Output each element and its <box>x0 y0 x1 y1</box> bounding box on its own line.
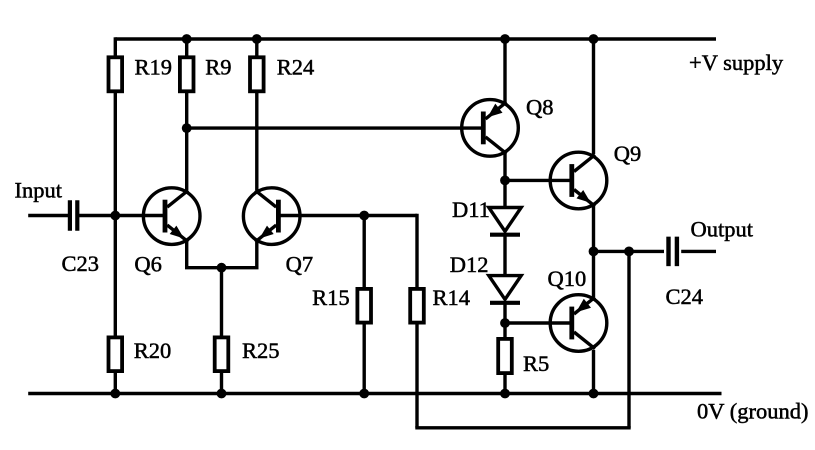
diode D12 <box>489 276 521 300</box>
svg-text:R5: R5 <box>523 351 549 376</box>
wire node to Q10 base <box>505 321 572 324</box>
wire Q8 collector to node <box>503 152 506 180</box>
node D12 / R5 / Q10 base <box>500 318 510 328</box>
wire R24 to Q7 collector <box>255 92 258 190</box>
wire top rail to R9 <box>185 39 188 57</box>
wire feedback bottom <box>415 426 630 429</box>
node R9 / Q8 base junction <box>182 123 192 133</box>
wire R14 to feedback bottom <box>415 324 418 428</box>
svg-text:R19: R19 <box>135 54 173 79</box>
svg-text:C24: C24 <box>666 284 704 309</box>
wire C24 to output lead <box>681 250 716 253</box>
wire Q7 base to R15/R14 <box>279 214 418 217</box>
node feedback tap <box>624 247 634 257</box>
resistor R9 <box>180 57 194 91</box>
wire top rail to Q8 emitter <box>503 39 506 103</box>
transistor Q9 <box>550 152 607 209</box>
svg-text:Input: Input <box>15 178 63 203</box>
wire top rail to R19 <box>114 37 117 57</box>
wire feedback up to output <box>627 251 630 427</box>
wire input lead <box>28 214 68 217</box>
resistor R5 <box>498 339 512 373</box>
node ground / R20 <box>110 389 120 399</box>
node Q9/Q10 output junction <box>589 247 599 257</box>
transistor Q10 <box>550 295 607 352</box>
resistor R15 <box>357 289 371 323</box>
wire +V supply top rail <box>115 37 716 40</box>
transistor Q6 <box>143 188 200 245</box>
wire Q9 emitter to output node <box>592 206 595 251</box>
wire R15 to ground <box>363 324 366 394</box>
wire D11 to D12 <box>503 235 506 277</box>
svg-text:R9: R9 <box>205 54 231 79</box>
wire R9 to Q8-base node to Q6 collector <box>185 92 188 190</box>
node emitter tail junction <box>217 263 227 273</box>
wire Q7 emitter to tail <box>255 242 258 268</box>
node ground / R25 <box>217 389 227 399</box>
wire C23 to input node to Q6 base <box>79 214 164 217</box>
node top rail / R9 <box>182 34 192 44</box>
wire top rail to Q9 collector <box>592 39 595 154</box>
svg-text:Q8: Q8 <box>526 94 554 119</box>
svg-text:D12: D12 <box>450 252 489 277</box>
wire Q6 emitter to tail <box>185 242 188 268</box>
svg-text:R15: R15 <box>312 285 350 310</box>
wire feedback tap to C24 <box>629 250 664 253</box>
wire Q6 collector node to Q8 base <box>187 126 484 129</box>
wire output node to Q10 emitter <box>592 251 595 297</box>
node R15 top junction <box>359 211 369 221</box>
wire Q10 collector to ground <box>592 350 595 394</box>
svg-text:D11: D11 <box>452 197 490 222</box>
wire D12 to Q10 base node <box>503 304 506 324</box>
wire R19 to input node to R20 <box>114 92 117 337</box>
svg-text:0V (ground): 0V (ground) <box>697 399 808 424</box>
resistor R20 <box>109 337 123 371</box>
resistor R25 <box>215 337 229 371</box>
svg-text:Q9: Q9 <box>614 141 642 166</box>
wire R25 to ground <box>220 372 223 394</box>
wire top rail to R24 <box>255 39 258 57</box>
transistor Q8 <box>462 100 519 157</box>
wire 0V ground bottom rail <box>28 392 721 395</box>
node top rail / Q8 <box>500 34 510 44</box>
svg-text:Q6: Q6 <box>134 251 162 276</box>
resistor R14 <box>410 289 424 323</box>
node ground / R15 <box>359 389 369 399</box>
wire R15 top lead <box>363 216 366 290</box>
wire R5 to ground <box>503 374 506 394</box>
wire down to R14 <box>415 214 418 289</box>
svg-text:R20: R20 <box>134 338 172 363</box>
diode D11 <box>489 208 521 232</box>
svg-text:R25: R25 <box>242 338 280 363</box>
node input junction <box>110 211 120 221</box>
capacitor C24 <box>666 237 670 267</box>
node Q8 collector / Q9 base / D11 <box>500 176 510 186</box>
svg-text:+V supply: +V supply <box>689 50 784 75</box>
wire output node to feedback tap <box>594 250 630 253</box>
node ground / R5 <box>500 389 510 399</box>
svg-text:R24: R24 <box>277 54 315 79</box>
svg-text:Q10: Q10 <box>548 266 587 291</box>
wire node to D11 <box>503 180 506 208</box>
transistor Q7 <box>243 188 300 245</box>
svg-text:R14: R14 <box>433 285 471 310</box>
wire tail to R25 <box>220 268 223 337</box>
wire R20 to ground <box>114 372 117 394</box>
wire node to R5 <box>503 323 506 338</box>
node ground / Q10 <box>589 389 599 399</box>
capacitor C23 <box>68 200 72 231</box>
node top rail / Q9 <box>589 34 599 44</box>
resistor R19 <box>109 57 123 91</box>
svg-text:Output: Output <box>691 217 754 242</box>
wire Q8 collector node to Q9 base <box>505 179 572 182</box>
resistor R24 <box>250 57 264 91</box>
svg-text:Q7: Q7 <box>286 251 314 276</box>
svg-text:C23: C23 <box>62 251 100 276</box>
node top rail / R24 <box>252 34 262 44</box>
